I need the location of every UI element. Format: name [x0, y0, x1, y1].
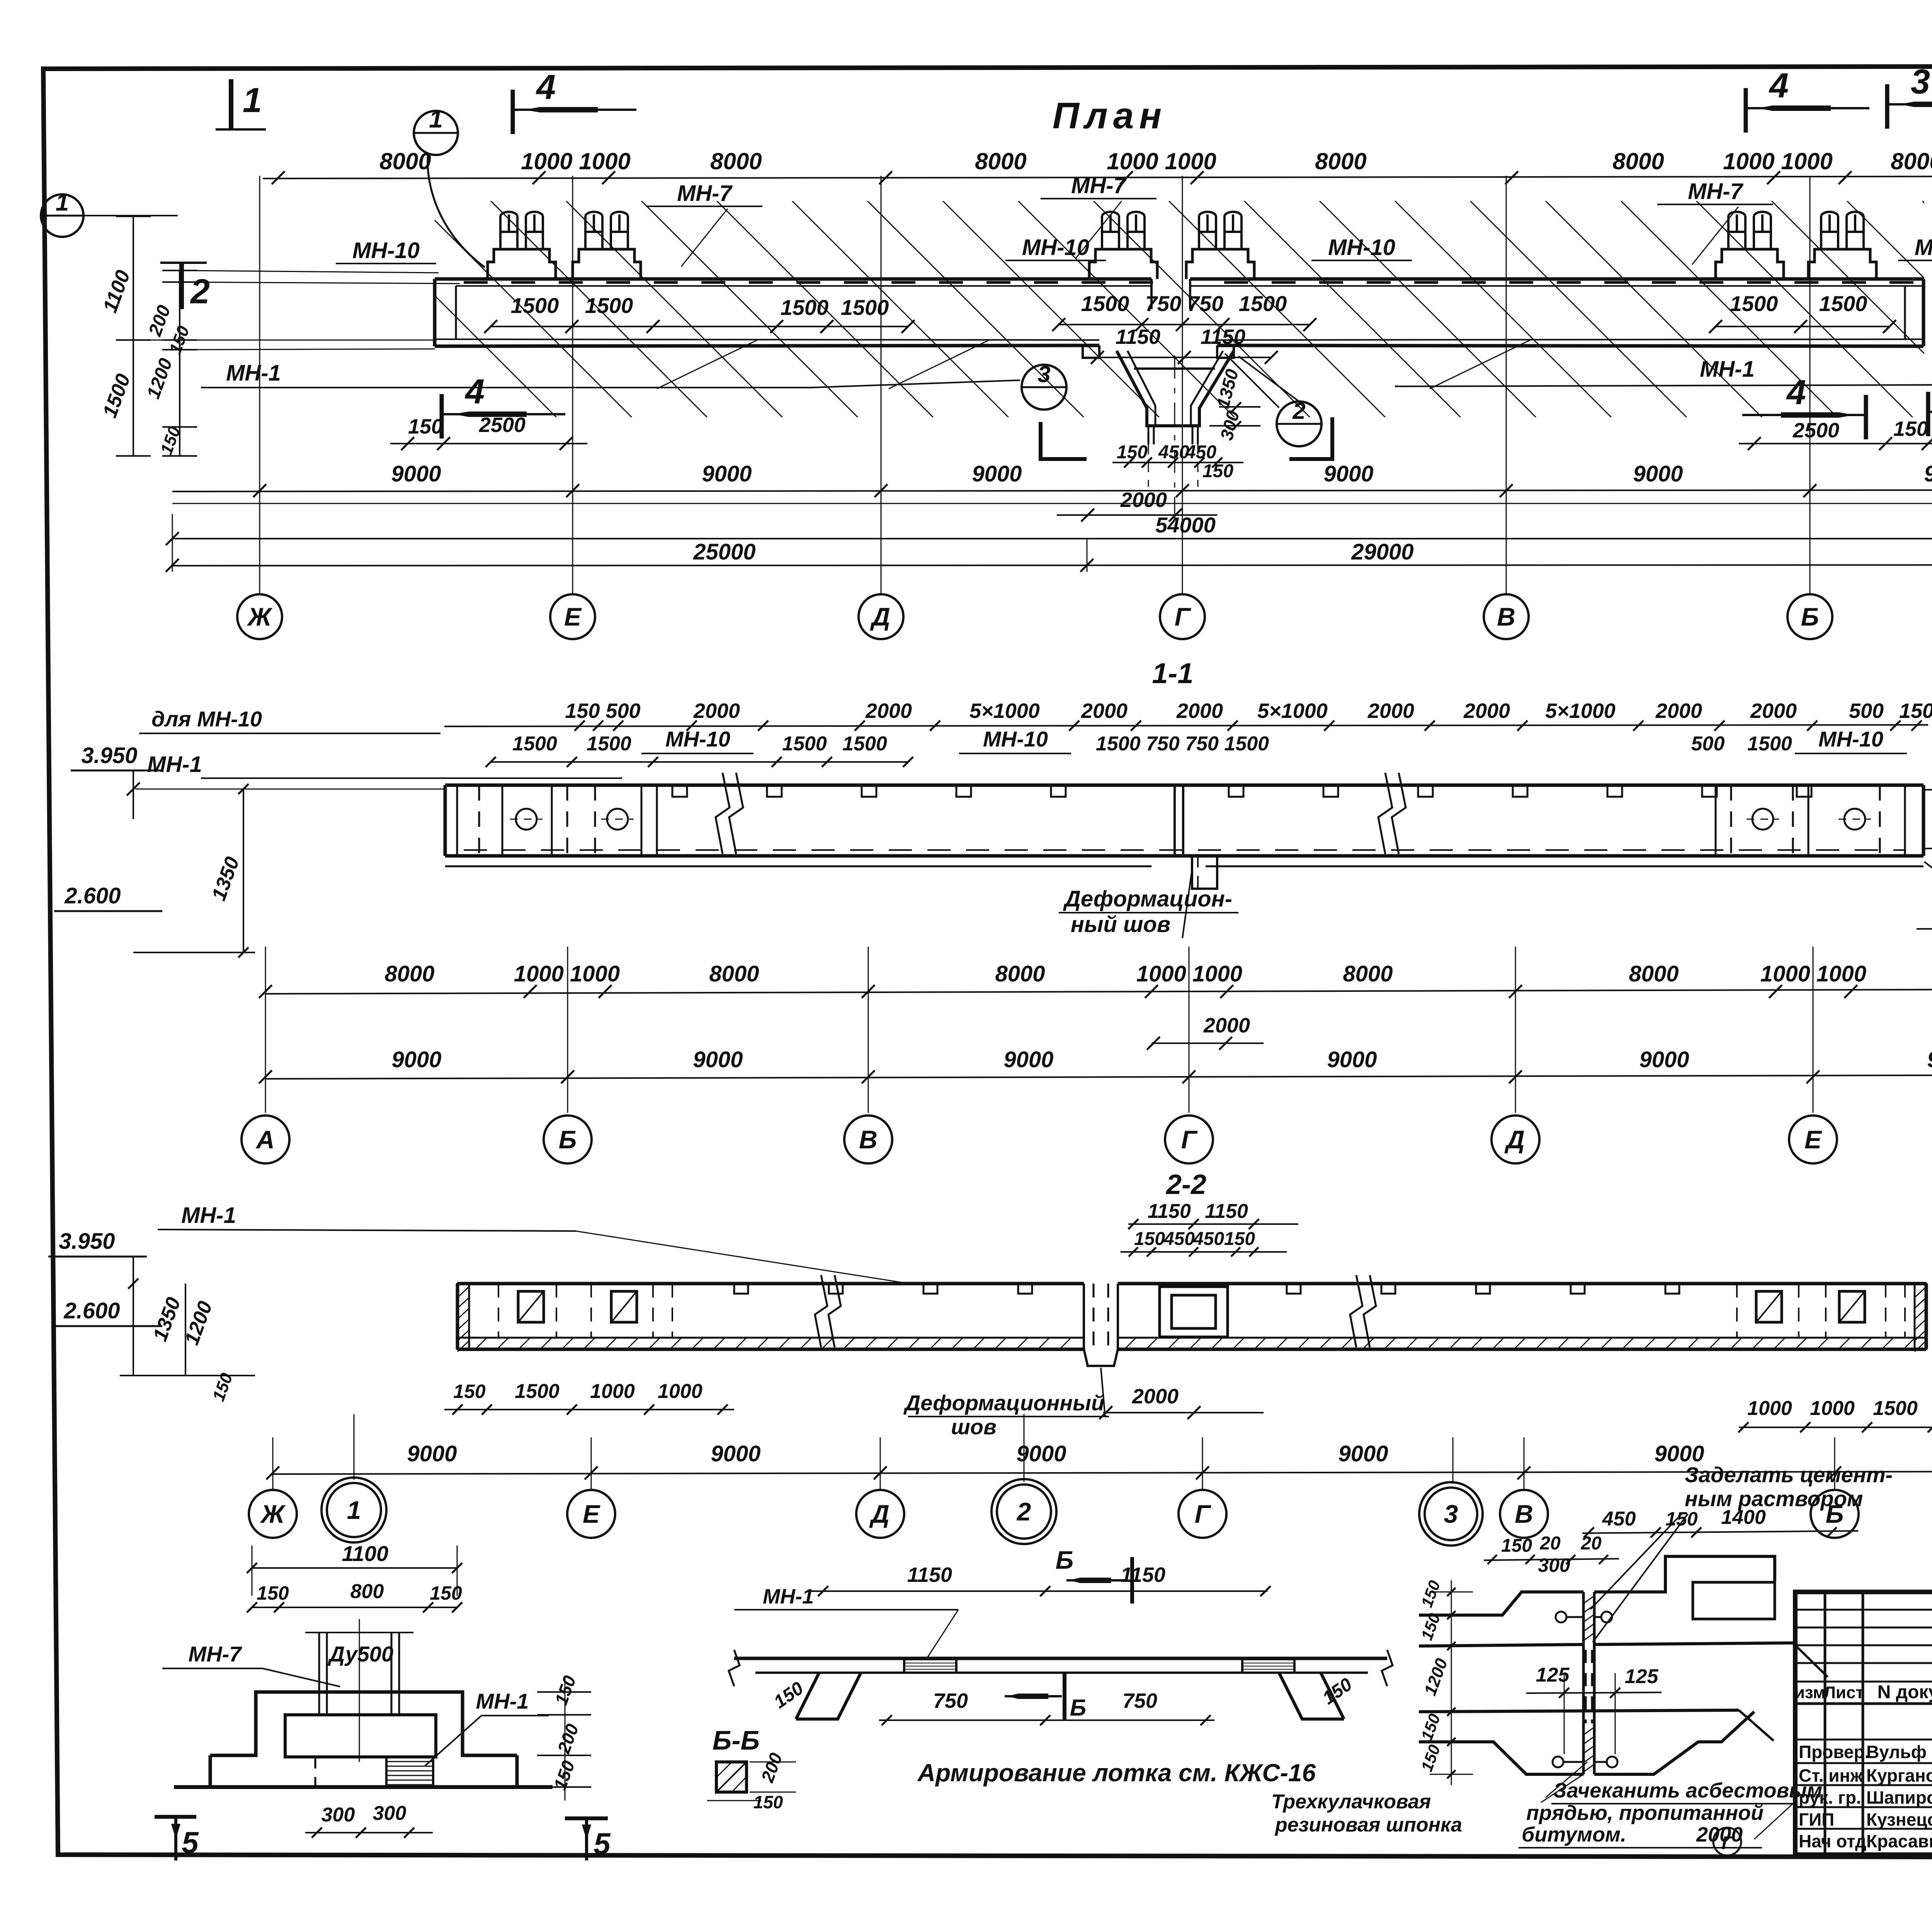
svg-text:5×1000: 5×1000	[1257, 699, 1328, 723]
section mark 3 (below plan, right)	[1926, 392, 1930, 436]
svg-text:Б-Б: Б-Б	[713, 1725, 760, 1755]
svg-text:1500: 1500	[1873, 1397, 1918, 1420]
svg-text:МН-10: МН-10	[1915, 235, 1932, 260]
svg-text:9000: 9000	[391, 461, 441, 486]
svg-text:МН-10: МН-10	[983, 727, 1048, 751]
MN-1 hatched block	[386, 1757, 433, 1787]
1-1 left end internals	[456, 785, 458, 856]
svg-text:150: 150	[430, 1582, 462, 1604]
svg-text:9000: 9000	[1327, 1047, 1377, 1072]
svg-text:2000: 2000	[1367, 699, 1414, 723]
svg-text:150 500: 150 500	[565, 699, 640, 723]
svg-text:3: 3	[1911, 63, 1930, 101]
plan axis verticals	[259, 176, 260, 594]
svg-text:МН-10: МН-10	[665, 727, 730, 751]
svg-text:4: 4	[1769, 66, 1789, 105]
svg-text:9000: 9000	[693, 1047, 743, 1072]
svg-text:1500: 1500	[1730, 291, 1778, 316]
svg-text:800: 800	[350, 1580, 384, 1603]
svg-text:2000: 2000	[1750, 699, 1797, 723]
plan left extension lines	[180, 270, 439, 273]
section 2-2 beam outline	[457, 1282, 1084, 1286]
svg-text:Г: Г	[1181, 1125, 1198, 1154]
2-2 center joint	[1083, 1284, 1085, 1349]
svg-text:8000: 8000	[1315, 148, 1366, 174]
svg-text:5: 5	[594, 1826, 611, 1860]
svg-text:Трехкулачковая: Трехкулачковая	[1271, 1791, 1431, 1813]
svg-text:МН-1: МН-1	[476, 1689, 529, 1713]
svg-text:1000: 1000	[1747, 1397, 1792, 1420]
svg-text:25000: 25000	[693, 539, 755, 565]
svg-text:29000: 29000	[1351, 539, 1413, 565]
svg-text:150: 150	[1893, 417, 1928, 440]
section mark 4 (top right)	[1744, 88, 1748, 133]
1-1 axis verticals	[265, 947, 266, 1113]
svg-text:8000: 8000	[384, 961, 434, 986]
1-1 right level lines and dims	[1923, 788, 1932, 790]
2-2 top notches	[734, 1284, 748, 1294]
svg-text:2000: 2000	[1655, 699, 1702, 723]
svg-text:450: 450	[1193, 1229, 1224, 1249]
section 1-1 beam outline	[445, 784, 1923, 787]
svg-text:9000: 9000	[711, 1441, 760, 1466]
svg-text:4: 4	[464, 372, 485, 411]
plan grid circles	[237, 594, 282, 639]
svg-text:5×1000: 5×1000	[1545, 699, 1616, 723]
svg-text:Шапиро: Шапиро	[1866, 1787, 1932, 1808]
svg-text:125: 125	[1625, 1665, 1659, 1688]
svg-text:1500: 1500	[512, 733, 557, 755]
plan beam left end	[433, 279, 437, 346]
svg-text:150: 150	[1224, 1229, 1255, 1249]
1-1 8000 dim row	[265, 989, 1932, 994]
svg-text:Ж: Ж	[247, 602, 273, 631]
B-B break marks	[729, 1650, 740, 1686]
section mark 5 (left)	[155, 1815, 196, 1819]
svg-text:Красавин: Красавин	[1866, 1831, 1932, 1851]
svg-text:1500 750 750 1500: 1500 750 750 1500	[1096, 733, 1269, 755]
svg-text:8000: 8000	[709, 961, 759, 986]
svg-text:2000: 2000	[1120, 488, 1167, 512]
svg-text:Нач отд: Нач отд	[1799, 1831, 1866, 1851]
svg-text:МН-1: МН-1	[226, 361, 281, 386]
svg-text:3.950: 3.950	[81, 743, 137, 768]
svg-text:9000: 9000	[1633, 461, 1683, 486]
1-1 9000 dim row	[265, 1075, 1932, 1079]
svg-text:Зачеканить асбестовым: Зачеканить асбестовым	[1553, 1779, 1822, 1802]
svg-text:1000 1000: 1000 1000	[1107, 148, 1216, 174]
callout balloon 3 (plan)	[1022, 365, 1066, 410]
svg-text:ным раствором: ным раствором	[1685, 1486, 1863, 1511]
title block frame	[1795, 1592, 1932, 1855]
svg-text:1500: 1500	[587, 733, 631, 755]
1-1 beam bottom dashed line	[464, 849, 1905, 851]
svg-text:Б: Б	[559, 1125, 577, 1154]
svg-text:2000: 2000	[693, 699, 740, 723]
2-2 bottom slab hatch	[475, 1338, 487, 1349]
svg-text:8000: 8000	[1343, 961, 1393, 986]
1-1 left level lines	[135, 789, 444, 790]
svg-text:1: 1	[429, 105, 443, 133]
plan beam joint edges	[1150, 279, 1153, 309]
svg-text:В: В	[1515, 1500, 1533, 1528]
2-2 axis verticals	[272, 1437, 274, 1491]
svg-text:2000: 2000	[1696, 1823, 1743, 1846]
svg-text:1150: 1150	[1116, 325, 1160, 349]
1-1 grid circles	[241, 1116, 289, 1163]
svg-text:2.600: 2.600	[63, 1298, 120, 1323]
svg-text:Д: Д	[1504, 1125, 1525, 1154]
anchor bolt assembly МН-7	[1186, 249, 1254, 279]
svg-text:Кузнецов: Кузнецов	[1866, 1809, 1932, 1830]
svg-text:9000: 9000	[1639, 1047, 1689, 1072]
svg-text:150: 150	[453, 1381, 486, 1402]
svg-text:МН-7: МН-7	[1071, 173, 1127, 198]
svg-text:150: 150	[1202, 461, 1233, 481]
svg-text:В: В	[859, 1125, 878, 1154]
svg-text:Б: Б	[1056, 1546, 1074, 1574]
svg-text:2: 2	[1292, 398, 1305, 424]
2-2 break symbols	[815, 1275, 827, 1347]
svg-text:Ду500: Ду500	[328, 1642, 393, 1666]
small hatched square detail	[716, 1762, 747, 1792]
svg-text:300: 300	[373, 1802, 406, 1825]
svg-text:3: 3	[1444, 1500, 1458, 1528]
svg-text:2500: 2500	[1793, 419, 1839, 442]
svg-text:МН-1: МН-1	[1700, 357, 1755, 382]
1-1 right end internals	[1715, 785, 1717, 856]
svg-text:1: 1	[347, 1496, 361, 1524]
svg-text:2: 2	[190, 272, 210, 311]
svg-text:Вульф: Вульф	[1866, 1742, 1927, 1762]
svg-text:1000: 1000	[658, 1380, 702, 1403]
section mark 4 (below plan, left)	[440, 394, 444, 439]
svg-text:Деформацион-: Деформацион-	[1063, 886, 1232, 911]
2-2 left end hatched cap	[457, 1284, 469, 1349]
svg-text:9000: 9000	[702, 461, 752, 486]
svg-text:Д: Д	[869, 1500, 889, 1528]
plan beam top edge	[435, 277, 1151, 281]
svg-text:1150: 1150	[1205, 1200, 1248, 1223]
svg-text:1150: 1150	[1201, 325, 1245, 349]
svg-text:А: А	[255, 1125, 275, 1154]
callout balloon 1 with leader	[414, 111, 458, 155]
2-2 9000 dim row	[273, 1471, 1932, 1474]
1-1 break symbol (right span)	[1378, 773, 1392, 854]
svg-text:Ж: Ж	[260, 1500, 286, 1528]
svg-text:МН-10: МН-10	[1818, 727, 1883, 751]
svg-text:1500: 1500	[511, 293, 559, 318]
2-2 embedded squares	[518, 1291, 544, 1322]
svg-text:500: 500	[1849, 699, 1884, 723]
svg-text:1500: 1500	[842, 733, 887, 755]
svg-text:Б: Б	[1070, 1695, 1086, 1721]
Г circle (joint detail)	[1713, 1828, 1741, 1855]
joint strip	[1582, 1592, 1585, 1774]
svg-text:450: 450	[1163, 1229, 1195, 1249]
section mark 5 (right)	[565, 1816, 608, 1820]
svg-text:2: 2	[1016, 1497, 1031, 1526]
svg-text:750: 750	[1122, 1689, 1157, 1712]
section mark 4 (below plan, right)	[1864, 395, 1868, 439]
svg-text:Армирование лотка см. КЖС-16: Армирование лотка см. КЖС-16	[917, 1759, 1316, 1787]
1-1 break symbol (left span)	[716, 773, 730, 854]
svg-text:Курганова: Курганова	[1866, 1765, 1932, 1786]
svg-text:2000: 2000	[1081, 699, 1128, 723]
MN-7 pedestal outline	[210, 1692, 517, 1755]
svg-text:Г: Г	[1175, 602, 1191, 631]
section mark 3 (top right)	[1885, 84, 1889, 129]
svg-text:8000: 8000	[1612, 148, 1664, 174]
pedestal inner block	[285, 1715, 436, 1757]
svg-text:1150: 1150	[1121, 1563, 1165, 1587]
svg-text:1100: 1100	[342, 1541, 388, 1566]
svg-text:2000: 2000	[865, 699, 912, 723]
svg-text:1: 1	[56, 189, 69, 216]
waterstop circles	[1556, 1612, 1566, 1622]
svg-text:150: 150	[1134, 1229, 1165, 1249]
svg-text:4: 4	[1786, 373, 1806, 412]
svg-text:Заделать цемент-: Заделать цемент-	[1685, 1462, 1893, 1487]
numbered axis circles	[321, 1478, 386, 1542]
section mark 2 (left)	[160, 262, 207, 264]
B section mark (bottom)	[1005, 1695, 1062, 1697]
2-2 grid circles row	[249, 1490, 297, 1538]
svg-text:МН-10: МН-10	[352, 238, 420, 263]
plan beam top plate dashes	[464, 281, 488, 284]
svg-text:резиновая шпонка: резиновая шпонка	[1274, 1814, 1462, 1836]
svg-text:битумом.: битумом.	[1522, 1823, 1626, 1846]
svg-text:3.950: 3.950	[59, 1229, 115, 1254]
svg-text:Провер.: Провер.	[1799, 1742, 1869, 1762]
svg-text:МН-1: МН-1	[763, 1585, 814, 1608]
svg-text:750: 750	[933, 1689, 968, 1712]
svg-text:750 750: 750 750	[1145, 291, 1223, 316]
section mark 4 (top left)	[511, 90, 515, 134]
svg-text:8000: 8000	[975, 148, 1026, 174]
svg-text:2000: 2000	[1463, 699, 1510, 723]
svg-text:2000: 2000	[1176, 699, 1223, 723]
joint detail outline right	[1594, 1556, 1775, 1592]
svg-text:Лист: Лист	[1824, 1683, 1864, 1702]
svg-text:ГИП: ГИП	[1799, 1809, 1834, 1830]
svg-text:Б: Б	[1801, 602, 1819, 631]
anchor bolt assembly МН-7	[573, 249, 641, 279]
svg-text:Е: Е	[583, 1500, 600, 1528]
svg-text:МН-7: МН-7	[189, 1642, 243, 1666]
joint detail outline left	[1419, 1592, 1583, 1615]
svg-text:МН-7: МН-7	[677, 181, 733, 206]
svg-text:450: 450	[1185, 442, 1216, 463]
svg-text:1500: 1500	[1239, 291, 1287, 316]
svg-text:150: 150	[753, 1792, 783, 1812]
svg-text:изм: изм	[1794, 1683, 1825, 1702]
anchor bolt assembly МН-7	[1808, 249, 1876, 279]
svg-text:МН-10: МН-10	[1328, 235, 1395, 260]
svg-text:9000: 9000	[1323, 461, 1373, 486]
anchor bolt assembly МН-7	[1089, 249, 1157, 279]
svg-text:300: 300	[1538, 1554, 1570, 1576]
svg-text:20: 20	[1580, 1533, 1602, 1554]
svg-text:9000: 9000	[391, 1047, 441, 1072]
svg-text:150: 150	[257, 1582, 289, 1604]
svg-text:1500: 1500	[1081, 291, 1129, 316]
anchor bolt assembly МН-7	[1716, 249, 1784, 279]
svg-text:1500: 1500	[1747, 733, 1792, 755]
anchor bolt assembly МН-7	[488, 249, 556, 279]
2-2 bottom slab line	[457, 1337, 1084, 1339]
section mark 1 (top left)	[229, 79, 233, 129]
2-2 right end hatched cap	[1915, 1284, 1926, 1349]
B-B legs	[755, 1672, 819, 1674]
svg-text:9000: 9000	[407, 1441, 457, 1466]
svg-text:9000: 9000	[1924, 461, 1932, 486]
svg-text:1500: 1500	[515, 1380, 560, 1403]
svg-text:1500: 1500	[781, 295, 829, 320]
svg-text:150: 150	[1899, 699, 1932, 723]
svg-text:Д: Д	[870, 602, 890, 631]
svg-text:1000: 1000	[1810, 1397, 1855, 1420]
svg-text:150: 150	[408, 415, 443, 438]
svg-text:1-1: 1-1	[1152, 657, 1194, 689]
svg-text:2-2: 2-2	[1165, 1169, 1206, 1200]
axis balloon 1 (left edge)	[41, 194, 83, 237]
plan left dimension chain	[133, 216, 134, 456]
svg-text:9000: 9000	[972, 461, 1022, 486]
2-2 dashed partitions	[498, 1284, 499, 1338]
svg-text:20: 20	[1539, 1533, 1561, 1554]
svg-text:1000 1000: 1000 1000	[514, 961, 620, 986]
title block revision columns	[1824, 1592, 1827, 1855]
svg-text:4: 4	[536, 68, 556, 107]
svg-text:1000 1000: 1000 1000	[1723, 148, 1833, 174]
1-1 top notches	[672, 785, 687, 797]
svg-text:54000: 54000	[1155, 513, 1216, 537]
svg-text:8000: 8000	[710, 148, 762, 174]
svg-text:Г: Г	[1195, 1500, 1211, 1528]
svg-text:Е: Е	[1804, 1125, 1822, 1154]
svg-text:9000: 9000	[1003, 1047, 1053, 1072]
svg-text:9000: 9000	[1338, 1441, 1388, 1466]
svg-text:1: 1	[243, 81, 262, 120]
svg-text:3: 3	[1037, 361, 1050, 387]
svg-text:450: 450	[1602, 1508, 1636, 1530]
svg-text:Е: Е	[564, 602, 582, 631]
svg-text:1150: 1150	[907, 1563, 952, 1587]
svg-text:9000: 9000	[1927, 1047, 1932, 1072]
svg-text:Деформационный: Деформационный	[903, 1391, 1104, 1415]
svg-text:МН-7: МН-7	[1688, 179, 1744, 204]
svg-text:8000: 8000	[995, 961, 1045, 986]
svg-text:МН-1: МН-1	[181, 1203, 236, 1228]
plan top dimension line	[263, 176, 1932, 179]
svg-text:300: 300	[321, 1804, 355, 1826]
corner marks at funnel	[1041, 422, 1087, 459]
plan beam right end	[1922, 279, 1925, 346]
svg-text:8000: 8000	[1891, 148, 1932, 174]
svg-text:2000: 2000	[1203, 1014, 1250, 1037]
2-2 opening next to joint	[1160, 1287, 1228, 1337]
B-B slab	[734, 1657, 1387, 1660]
svg-text:ный шов: ный шов	[1071, 912, 1170, 937]
plan beam bottom edge	[435, 339, 1099, 340]
svg-text:1400: 1400	[1721, 1506, 1766, 1529]
svg-text:шов: шов	[951, 1415, 997, 1439]
svg-text:2000: 2000	[1132, 1385, 1179, 1408]
svg-text:1150: 1150	[1148, 1200, 1191, 1223]
svg-text:Г: Г	[1721, 1833, 1734, 1854]
svg-text:5: 5	[182, 1825, 199, 1859]
svg-text:1500: 1500	[585, 293, 633, 318]
svg-text:150: 150	[1665, 1508, 1698, 1530]
svg-text:1500: 1500	[1819, 291, 1867, 316]
svg-text:150: 150	[1501, 1536, 1532, 1556]
svg-text:МН-1: МН-1	[147, 752, 202, 777]
svg-text:2.600: 2.600	[64, 883, 121, 908]
1-1 center joint	[1173, 785, 1176, 856]
plan 9000 dim row	[172, 490, 1932, 491]
svg-text:8000: 8000	[1629, 961, 1679, 986]
svg-text:прядью, пропитанной: прядью, пропитанной	[1526, 1801, 1764, 1825]
svg-text:N докум.: N докум.	[1878, 1682, 1932, 1702]
svg-text:для МН-10: для МН-10	[151, 707, 262, 731]
svg-text:5×1000: 5×1000	[969, 699, 1040, 723]
ground line	[174, 1785, 553, 1789]
deformation joint funnel (plan)	[1117, 351, 1234, 426]
svg-text:8000: 8000	[379, 148, 431, 174]
B-B hatched blocks	[904, 1658, 956, 1673]
svg-text:План: План	[1053, 95, 1167, 136]
svg-text:1500: 1500	[782, 733, 827, 755]
svg-text:1000 1000: 1000 1000	[521, 148, 631, 174]
callout balloon 2 (plan)	[1277, 401, 1321, 446]
svg-text:1500: 1500	[841, 295, 889, 320]
svg-text:500: 500	[1691, 733, 1725, 755]
plan extra chain line	[172, 503, 1932, 504]
svg-text:1000: 1000	[590, 1380, 635, 1403]
svg-text:В: В	[1497, 602, 1515, 631]
svg-text:450: 450	[1158, 442, 1189, 463]
